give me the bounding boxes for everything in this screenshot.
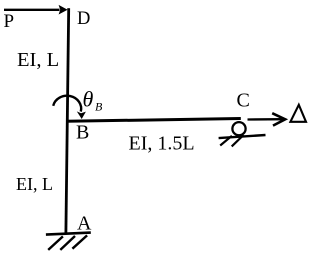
roller support at C: roller circle	[232, 122, 245, 135]
column member D-B-A (vertical)	[66, 8, 69, 232]
fixed support hatch mark 2	[60, 236, 75, 250]
svg-text:A: A	[77, 213, 92, 235]
svg-text:EI, 1.5L: EI, 1.5L	[129, 133, 195, 155]
svg-text:D: D	[77, 9, 90, 29]
svg-text:P: P	[4, 11, 15, 32]
roller hatch mark 2	[232, 135, 244, 146]
moment arc at B	[53, 96, 86, 119]
svg-text:B: B	[95, 100, 103, 114]
displacement arrow Delta (open chevron head)	[248, 113, 286, 125]
fixed support ground line at A	[46, 233, 91, 235]
Delta symbol (triangle outline)	[290, 105, 306, 122]
load arrow P (horizontal force at D)	[4, 5, 68, 15]
svg-text:θ: θ	[83, 87, 94, 112]
svg-text:B: B	[76, 122, 89, 144]
svg-text:EI, L: EI, L	[17, 49, 59, 71]
beam member B-C (horizontal)	[66, 119, 241, 122]
svg-text:EI, L: EI, L	[16, 174, 53, 194]
svg-text:C: C	[237, 90, 250, 112]
roller support ground line	[219, 135, 266, 138]
fixed support hatch mark 3	[72, 235, 87, 248]
fixed support hatch mark 1	[48, 236, 63, 250]
roller hatch mark 1	[220, 136, 232, 146]
